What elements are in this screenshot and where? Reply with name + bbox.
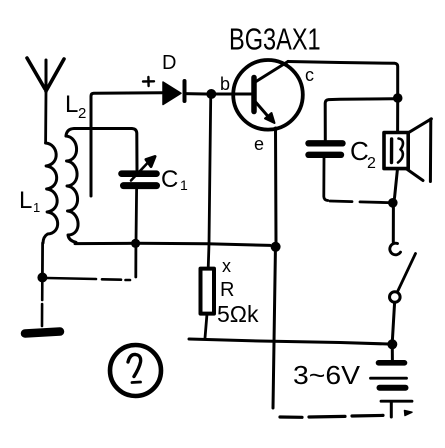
battery GB	[371, 349, 413, 417]
wire collector to top right corner	[288, 62, 398, 95]
label L2	[65, 91, 86, 122]
wire collector node left to C2 top	[325, 99, 393, 140]
wire C2 bottom lead down	[324, 158, 328, 201]
wire ground junction to the right (broken)	[47, 278, 130, 280]
svg-text:b: b	[220, 74, 230, 94]
figure number circle 2	[110, 345, 161, 396]
antenna	[27, 58, 64, 92]
label L1	[19, 187, 40, 215]
svg-text:5Ωk: 5Ωk	[217, 301, 259, 327]
wire ground lead down	[41, 282, 44, 326]
wire resistor bottom lead	[205, 314, 207, 338]
wire C1 stub below junction	[134, 248, 137, 277]
junction dot speaker bottom node	[388, 198, 398, 208]
svg-text:L: L	[65, 91, 78, 118]
wire base lead	[216, 93, 251, 96]
inductor L2	[66, 136, 78, 242]
wire antenna mast down to L1	[44, 91, 47, 143]
wire emitter down	[274, 128, 278, 243]
node b junction dot	[206, 89, 216, 99]
wire L2 top corner to C1 top	[66, 129, 137, 171]
ground	[25, 332, 60, 334]
plus sign of diode	[143, 77, 154, 86]
diode D	[163, 81, 206, 105]
wire C2 to battery node (broken)	[330, 201, 388, 203]
svg-text:BG3AX1: BG3AX1	[229, 21, 321, 56]
junction dot emitter node	[271, 242, 281, 252]
transistor Q1 BG3AX1	[233, 60, 303, 130]
wire bottom return (broken)	[280, 415, 383, 417]
wire top corner to diode anode	[91, 93, 162, 96]
junction dot C1 bottom	[131, 239, 140, 248]
resistor R	[201, 269, 215, 314]
svg-text:1: 1	[33, 200, 40, 215]
inductor L1	[43, 143, 58, 243]
wire C1 bottom lead down through junction	[135, 189, 138, 242]
wire resistor lead from node b down	[208, 99, 211, 269]
wire L1 bottom to ground junction	[41, 243, 44, 275]
svg-text:3~6V: 3~6V	[293, 360, 361, 390]
label C2	[350, 136, 376, 172]
wire collector node down to speaker	[396, 103, 399, 133]
wire emitter node down to bottom	[273, 251, 275, 408]
svg-text:C: C	[350, 136, 369, 166]
svg-text:R: R	[220, 279, 234, 301]
wire speaker bottom to battery-switch node	[395, 169, 398, 198]
switch S	[390, 208, 416, 341]
wire bottom rail resistor to battery	[189, 339, 388, 344]
svg-text:e: e	[254, 134, 264, 154]
wire bottom rail L2 to emitter junction	[75, 243, 270, 245]
svg-text:1: 1	[180, 177, 188, 193]
svg-text:2: 2	[78, 105, 86, 122]
junction dot battery top node	[387, 339, 397, 349]
wire tap vertical from top corner down	[90, 97, 93, 196]
svg-text:L: L	[19, 187, 32, 214]
speaker	[384, 119, 431, 182]
capacitor C2	[309, 143, 343, 155]
junction dot collector node	[393, 93, 403, 103]
svg-text:x: x	[222, 256, 231, 276]
svg-text:c: c	[305, 65, 314, 85]
svg-text:D: D	[162, 52, 176, 74]
label C1	[161, 166, 188, 193]
svg-text:C: C	[161, 166, 178, 193]
arrow tick at battery bottom	[405, 411, 413, 416]
svg-text:2: 2	[367, 155, 376, 172]
capacitor C1 variable	[122, 157, 157, 186]
junction dot ground node	[37, 273, 47, 283]
